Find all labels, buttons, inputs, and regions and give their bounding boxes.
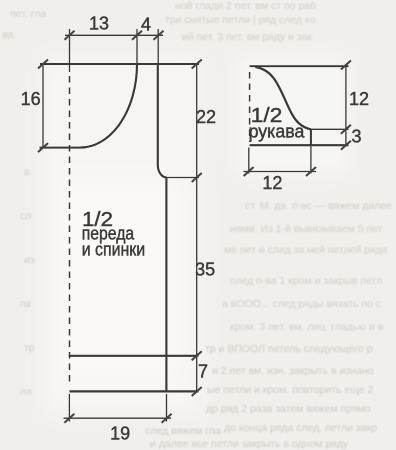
tick: 22 top [192, 60, 202, 69]
svg-text:ной глади 2 пет. вм ст по раб: ной глади 2 пет. вм ст по раб [175, 0, 316, 12]
svg-text:ий пет. 3 пет. вм ряду и зак: ий пет. 3 пет. вм ряду и зак [182, 31, 312, 43]
tick: 13 left end [65, 31, 75, 40]
dimension line 16 (left) [42, 64, 44, 148]
svg-text:19: 19 [110, 424, 130, 444]
svg-text:др ряд 2 раза затем вяжем прям: др ряд 2 раза затем вяжем прямо [206, 403, 371, 415]
tick: 22/35 boundary [192, 173, 202, 182]
dimension labels left diagram [21, 14, 216, 444]
tick: sleeve 12/3 boundary [341, 125, 351, 134]
svg-text:13: 13 [89, 14, 109, 34]
dimension labels sleeve [262, 89, 369, 193]
svg-text:до конца ряда след. петли закр: до конца ряда след. петли закр [224, 422, 377, 434]
svg-text:из: из [24, 254, 35, 266]
svg-text:ые петли и кром. повторить еще: ые петли и кром. повторить еще 2 [207, 384, 373, 396]
tick: sleeve 12 bottom left [244, 167, 254, 176]
sleeve fold line (dashed) [249, 72, 251, 142]
top edge of garment [40, 63, 199, 65]
svg-text:в.: в. [24, 166, 33, 178]
svg-text:ме пет и след за ней петлей ря: ме пет и след за ней петлей ряда [224, 244, 388, 256]
dimension line 13/4 (top) [65, 34, 163, 36]
tick: sleeve 3 bottom [341, 141, 351, 150]
svg-text:ст. М. дв. п-вс — вяжем далее: ст. М. дв. п-вс — вяжем далее [245, 200, 392, 212]
scan brightness variation [42, 55, 350, 415]
tick: 16 bottom [38, 143, 48, 152]
svg-text:4: 4 [141, 15, 151, 35]
svg-text:тр: тр [24, 342, 35, 354]
tick: sleeve 12 top [341, 61, 351, 70]
extension line bottom right [166, 394, 168, 422]
dimension line 19 (bottom) [64, 417, 172, 419]
extension line neck edge [136, 29, 138, 64]
sleeve top edge + extension [250, 65, 349, 67]
svg-text:сл: сл [20, 210, 31, 222]
right dimension line 12/3 [345, 64, 347, 147]
tick: sleeve 12 bottom right [306, 167, 316, 176]
armhole-end line [311, 128, 349, 130]
svg-text:кром. 3 пет. вм. лиц. гладью и: кром. 3 пет. вм. лиц. гладью и в [230, 321, 384, 333]
part label: 1/2 переда и спинки [82, 209, 146, 260]
tick: 19 right [162, 414, 172, 423]
tick: 35/7 boundary [192, 351, 202, 360]
svg-text:след п-ва 1 кром и закрыв петл: след п-ва 1 кром и закрыв петл [230, 275, 382, 287]
armhole extension line [167, 177, 199, 179]
tick: 4 right end [154, 31, 164, 40]
cuff line [250, 144, 349, 146]
body right edge [165, 178, 167, 392]
svg-text:12: 12 [262, 173, 282, 193]
fold line (dashed) [69, 76, 71, 382]
neckline bottom line [40, 147, 81, 149]
svg-text:ля: ля [20, 386, 32, 398]
tick: 7 bottom [192, 387, 202, 396]
extension line at fold top [69, 29, 71, 72]
sleeve right edge [310, 129, 312, 145]
extension line below cuff left [248, 148, 250, 174]
svg-text:35: 35 [195, 260, 215, 280]
svg-text:след вяжем гла: след вяжем гла [145, 425, 221, 437]
svg-text:7: 7 [198, 362, 208, 382]
tick: 13/4 boundary [132, 31, 142, 40]
svg-text:тр и ВПООЛ петель следующего р: тр и ВПООЛ петель следующего р [205, 343, 373, 355]
svg-text:3: 3 [351, 127, 361, 147]
svg-text:16: 16 [21, 89, 41, 109]
part label: 1/2 рукава [249, 105, 306, 142]
extension line bottom left [68, 394, 70, 422]
neckline curve [80, 64, 137, 148]
svg-text:пв: пв [20, 298, 32, 310]
svg-text:12: 12 [349, 89, 369, 109]
svg-text:и 2 пет вм. изн. закрыть в изн: и 2 пет вм. изн. закрыть в изнано [212, 365, 374, 377]
svg-text:нями. Из 1-й вывязываем 5 пет: нями. Из 1-й вывязываем 5 пет [230, 223, 383, 235]
svg-text:три снятые петли | ряд след ко: три снятые петли | ряд след ко [165, 14, 316, 26]
svg-text:22: 22 [196, 107, 216, 127]
svg-text:и спинки: и спинки [82, 239, 146, 259]
dimension line 12 (bottom) [244, 171, 317, 173]
bottom hem line [70, 390, 199, 392]
svg-text:ва.: ва. [2, 29, 16, 41]
svg-text:а вООО... след ряды вязать по: а вООО... след ряды вязать по с [222, 298, 381, 310]
svg-text:пет. гла: пет. гла [10, 8, 46, 20]
shoulder/armhole right edge [158, 64, 167, 178]
svg-text:рукава: рукава [249, 122, 306, 142]
extension line below cuff right [310, 145, 312, 173]
svg-text:и далее все петли закрыть в од: и далее все петли закрыть в одном ряду [150, 438, 349, 450]
right dimension line 22/35/7 [196, 64, 198, 392]
tick: 16 top [38, 60, 48, 69]
tick: 19 left [64, 414, 74, 423]
ribbing top line [70, 355, 199, 357]
sleeve cap S-curve [255, 67, 311, 129]
extension line shoulder edge top [157, 29, 159, 64]
